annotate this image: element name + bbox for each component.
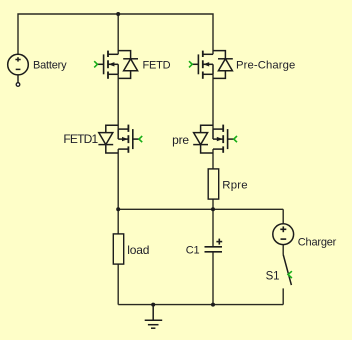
- node junction top rail: [116, 12, 120, 16]
- transistor pre (NMOS with body diode, mirrored): [193, 125, 234, 153]
- pin marker FETD1 gate: [139, 136, 142, 142]
- wire C1 to bottom rail: [212, 252, 214, 304]
- body diode of FETD1: [106, 125, 118, 132]
- wire charger branch down: [282, 209, 284, 224]
- svg-text:Battery: Battery: [33, 59, 67, 71]
- pin marker S1: [288, 271, 292, 278]
- transistor FETD (NMOS with body diode): [97, 51, 138, 79]
- polarity plus of C1: [216, 239, 222, 245]
- svg-text:Pre-Charge: Pre-Charge: [236, 60, 295, 72]
- wire FETD drain from top rail: [117, 14, 119, 54]
- node junction bottom rail ground: [151, 303, 155, 307]
- wire bottom rail: [118, 304, 283, 306]
- wire Rpre to mid rail: [212, 199, 214, 209]
- body diode of Pre-Charge: [213, 51, 225, 59]
- svg-text:C1: C1: [186, 245, 200, 257]
- pin marker pre gate: [234, 136, 237, 142]
- charger source: [273, 224, 294, 245]
- wire load top: [117, 209, 119, 234]
- node junction mid rail Rpre: [211, 207, 215, 211]
- svg-text:S1: S1: [266, 270, 280, 282]
- capacitor C1: [205, 247, 223, 252]
- wire mid rail: [118, 208, 283, 210]
- pin marker Pre-Charge gate: [189, 61, 192, 67]
- svg-text:load: load: [127, 243, 149, 257]
- svg-text:FETD: FETD: [143, 60, 171, 72]
- wire Pre-Charge source to pre: [212, 74, 214, 129]
- transistor Pre-Charge (NMOS with body diode): [192, 51, 233, 79]
- svg-text:Rpre: Rpre: [222, 180, 248, 192]
- wire FETD1 drain down to mid rail: [117, 149, 119, 209]
- transistor FETD1 (NMOS with body diode, mirrored): [98, 125, 139, 153]
- wire charger to switch: [282, 245, 284, 255]
- node junction mid rail left: [116, 207, 120, 211]
- wire FETD source to FETD1: [117, 74, 119, 129]
- switch S1: [283, 255, 291, 286]
- svg-text:Charger: Charger: [298, 236, 337, 248]
- resistor Rpre: [208, 169, 219, 199]
- body diode of FETD: [118, 51, 130, 59]
- wire load bottom: [117, 264, 119, 305]
- wire top rail: [18, 14, 213, 54]
- body diode of pre: [201, 125, 213, 132]
- wire switch to bottom rail: [282, 288, 284, 304]
- svg-text:FETD1: FETD1: [63, 132, 98, 146]
- battery V1: [8, 54, 29, 86]
- ground: [145, 305, 163, 329]
- pin marker FETD gate: [94, 61, 97, 67]
- resistor load: [113, 234, 123, 264]
- svg-text:pre: pre: [172, 133, 189, 147]
- wire pre drain to Rpre: [212, 149, 214, 169]
- wire mid rail to C1: [212, 209, 214, 246]
- node junction bottom rail C1: [211, 303, 215, 307]
